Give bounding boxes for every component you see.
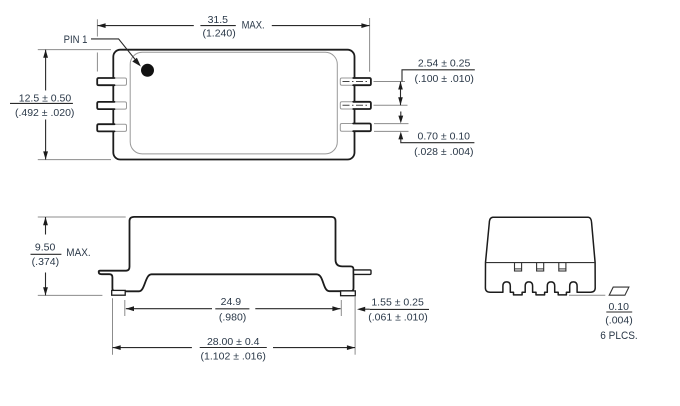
dim text 1.55 ± 0.25 / (.061 ± .010) xyxy=(368,297,427,324)
svg-text:(.061 ± .010): (.061 ± .010) xyxy=(368,312,427,324)
svg-text:(.004): (.004) xyxy=(605,314,632,326)
dim 12.5 extension line bottom xyxy=(38,159,111,161)
pin R2 (top view right, row 2) xyxy=(340,102,371,109)
leader 2.54 xyxy=(402,70,475,82)
svg-text:0.10: 0.10 xyxy=(608,301,629,313)
dim line 9.50 vertical with arrows xyxy=(43,217,48,295)
svg-text:1.55 ± 0.25: 1.55 ± 0.25 xyxy=(371,297,424,309)
end view pin 2 xyxy=(537,263,544,271)
pin R1 (top view right, row 1) xyxy=(340,78,371,85)
pin R3 (top view right, row 3) xyxy=(340,124,371,132)
pin L1 (top view left, row 1) xyxy=(97,78,126,85)
svg-text:MAX.: MAX. xyxy=(242,19,265,31)
centerline pin R1 xyxy=(343,81,370,83)
svg-text:(.374): (.374) xyxy=(32,256,59,268)
end view pin 1 xyxy=(515,263,522,271)
dim text 28.00 ± 0.4 / (1.102 ± .016) xyxy=(201,336,266,363)
dim text 24.9 / (.980) xyxy=(219,296,246,323)
dim line 12.5 vertical with arrows xyxy=(43,50,48,160)
dim text 31.5 / (1.240) MAX. xyxy=(202,14,264,40)
end view pin 3 xyxy=(559,263,566,271)
dim text 12.5 ± 0.50 / (.492 ± .020) xyxy=(10,92,74,118)
svg-text:31.5: 31.5 xyxy=(208,14,229,26)
dim 28.00 extension line left xyxy=(112,298,114,354)
dim text 0.10 / (.004) 6 PLCS. xyxy=(600,301,637,342)
extension line pin R3 top edge xyxy=(374,123,409,125)
svg-text:0.70 ± 0.10: 0.70 ± 0.10 xyxy=(418,131,471,143)
dim 24.9 extension line left xyxy=(124,300,126,316)
centerline pin R2 xyxy=(343,104,370,106)
svg-text:(.028 ± .004): (.028 ± .004) xyxy=(414,146,473,158)
svg-text:MAX.: MAX. xyxy=(66,247,90,259)
extension line pin R2 centerline xyxy=(374,104,408,106)
end view body outline xyxy=(485,217,595,295)
flatness parallelogram symbol xyxy=(609,287,629,295)
svg-text:28.00 ± 0.4: 28.00 ± 0.4 xyxy=(207,336,260,348)
dim 9.50 extension line top xyxy=(38,216,126,218)
extension line pin R1 centerline xyxy=(374,81,406,83)
dim 31.5 extension line left (dashed) xyxy=(96,19,98,71)
dim 0.70 upper arrow pointing down xyxy=(398,112,403,124)
PIN 1 label xyxy=(64,34,88,46)
side view foot right xyxy=(341,291,356,296)
svg-text:12.5 ± 0.50: 12.5 ± 0.50 xyxy=(19,92,72,104)
dim line 31.5 xyxy=(97,23,369,28)
dim 1.55 arrow and leader xyxy=(357,307,429,312)
pin L2 (top view left, row 2) xyxy=(97,102,126,109)
side view foot left xyxy=(112,290,126,295)
svg-text:(.980): (.980) xyxy=(219,311,246,323)
svg-text:24.9: 24.9 xyxy=(221,296,242,308)
svg-text:2.54 ± 0.25: 2.54 ± 0.25 xyxy=(418,57,471,69)
side view body outline xyxy=(99,217,354,291)
seating plane extension line xyxy=(569,294,605,296)
dim 0.70 lower arrow and leader xyxy=(398,132,474,143)
side view pin right tab xyxy=(354,270,372,275)
pin 1 index dot xyxy=(141,64,154,77)
dim line 28.00 xyxy=(113,345,356,350)
svg-text:(1.240): (1.240) xyxy=(202,27,235,39)
svg-text:6 PLCS.: 6 PLCS. xyxy=(600,330,637,342)
dim 28.00 extension line right xyxy=(354,296,356,355)
dim line 24.9 xyxy=(126,306,341,311)
top view body outer case xyxy=(113,50,354,160)
pin L3 (top view left, row 3) xyxy=(97,124,126,131)
svg-text:9.50: 9.50 xyxy=(35,242,56,254)
dim 12.5 extension line top xyxy=(38,49,111,51)
PIN 1 leader arrow xyxy=(91,39,141,67)
top view body inner lid outline xyxy=(130,52,337,154)
dim 2.54 vertical arrows xyxy=(398,82,403,106)
extension line pin R3 bottom edge xyxy=(374,130,409,132)
dim text 9.50 / (.374) MAX. xyxy=(31,242,91,268)
dim 31.5 extension line right xyxy=(369,18,371,72)
svg-text:(.492 ± .020): (.492 ± .020) xyxy=(15,107,74,119)
svg-text:(1.102 ± .016): (1.102 ± .016) xyxy=(201,351,266,363)
dim text 2.54 ± 0.25 / (.100 ± .010) xyxy=(414,57,473,85)
svg-text:(.100 ± .010): (.100 ± .010) xyxy=(414,73,473,85)
svg-text:PIN 1: PIN 1 xyxy=(64,34,88,46)
end view seam line xyxy=(486,262,595,264)
dim 24.9 extension line right xyxy=(340,300,342,316)
dim text 0.70 ± 0.10 / (.028 ± .004) xyxy=(414,131,473,158)
dim 9.50 extension line bottom xyxy=(38,294,103,296)
